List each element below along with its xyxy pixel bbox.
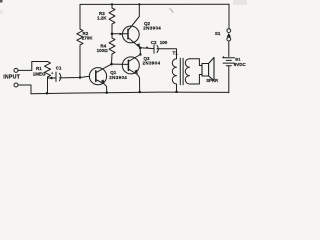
svg-text:100Ω: 100Ω — [97, 48, 109, 53]
svg-text:1MEG: 1MEG — [33, 72, 46, 77]
svg-text:1.2K: 1.2K — [97, 16, 107, 21]
svg-text:9VDC: 9VDC — [234, 62, 247, 67]
svg-text:C1: C1 — [56, 66, 62, 71]
svg-text:C2: C2 — [151, 40, 157, 45]
svg-text:Q1: Q1 — [110, 70, 117, 75]
svg-text:2N3904: 2N3904 — [143, 26, 161, 31]
svg-text:2N3904: 2N3904 — [109, 75, 127, 80]
svg-text:2N3904: 2N3904 — [143, 60, 161, 65]
svg-text:100: 100 — [160, 40, 168, 45]
svg-text:B1: B1 — [235, 56, 241, 61]
svg-text:270K: 270K — [82, 35, 94, 40]
svg-text:SPKR: SPKR — [206, 78, 219, 83]
svg-text:T1: T1 — [173, 50, 179, 55]
svg-text:R1: R1 — [36, 66, 42, 71]
svg-text:S1: S1 — [215, 31, 221, 36]
svg-text:INPUT: INPUT — [3, 74, 20, 80]
